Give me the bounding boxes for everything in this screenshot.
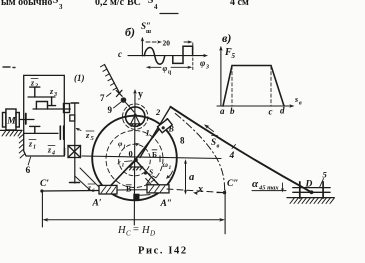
svg-text:1: 1 — [146, 128, 150, 138]
top pinion pivot — [129, 113, 141, 126]
C' extension vertical — [41, 191, 43, 227]
svg-text:1: 1 — [123, 144, 126, 150]
dashed x line to C'' — [167, 189, 225, 193]
svg-text:в): в) — [222, 31, 231, 45]
svg-text:В: В — [126, 185, 132, 194]
svg-text:(1): (1) — [74, 73, 85, 83]
svg-text:φ: φ — [200, 58, 205, 68]
point S dot — [144, 171, 147, 174]
svg-text:z: z — [85, 130, 90, 140]
wall hatching on housing left — [19, 134, 24, 158]
svg-text:3: 3 — [59, 3, 63, 11]
stray dash top-left margin — [3, 66, 15, 69]
spring-loaded stop 7 (hatched arrow) — [101, 65, 123, 97]
diagram v) horizontal axis — [217, 104, 295, 108]
link 4 upper segment through block — [140, 107, 171, 158]
dimension label Hc = HD — [117, 225, 155, 238]
label z6 — [87, 183, 95, 194]
link 3 to A'' — [136, 161, 166, 193]
point B bottom — [133, 194, 139, 200]
top pinion 9 circle — [126, 107, 145, 126]
x axis line through wheel — [82, 156, 221, 159]
svg-text:Рис. І42: Рис. І42 — [138, 246, 188, 257]
svg-text:20: 20 — [163, 39, 171, 48]
link 4 long arm — [171, 107, 312, 193]
motor shaft and coupling — [19, 114, 34, 125]
motor M — [3, 109, 20, 130]
svg-text:C′: C′ — [40, 179, 49, 189]
diagram b) sine curve — [144, 48, 165, 65]
diagram v) abscissa labels — [220, 106, 285, 117]
svg-text:A″: A″ — [160, 199, 173, 209]
intermediate shaft — [33, 108, 70, 110]
svg-text:ВС: ВС — [127, 0, 141, 8]
svg-text:1: 1 — [33, 145, 36, 151]
lower shaft — [24, 132, 58, 134]
small pinion on shaft — [70, 115, 75, 121]
diagram b) square wave — [173, 46, 193, 63]
C'' extension vertical — [224, 190, 226, 234]
phi1 label — [118, 139, 126, 150]
svg-text:2: 2 — [34, 84, 38, 90]
svg-text:б): б) — [125, 25, 135, 39]
vertical shaft z5 — [70, 103, 80, 183]
small arrow near S — [153, 176, 157, 178]
S arrow on link 4 — [206, 126, 214, 132]
bracket lines to wheel — [75, 168, 100, 190]
svg-text:3: 3 — [53, 92, 57, 98]
pivot D — [310, 190, 314, 194]
crank 1 — [107, 119, 167, 190]
diagram b) vertical axis — [141, 37, 145, 56]
diagram v) vertical axis — [219, 46, 223, 106]
svg-text:s: s — [294, 95, 298, 104]
svg-text:D: D — [149, 230, 155, 238]
gearbox housing 6 — [24, 75, 65, 156]
alpha arrow — [282, 183, 284, 190]
motor ground hatching — [0, 130, 22, 136]
dimension a — [184, 159, 187, 195]
gear z1 — [30, 126, 40, 133]
gear z4 bars — [60, 126, 63, 139]
dash-dot arc trajectory — [175, 114, 224, 193]
svg-text:7: 7 — [100, 93, 105, 103]
svg-text:ым обычно: ым обычно — [1, 0, 52, 8]
slider A'' — [147, 185, 169, 193]
svg-text:Б: Б — [152, 150, 157, 159]
label z5 with leader arrow — [77, 129, 82, 131]
diagram v) s5 axis label — [294, 95, 302, 107]
svg-text:2: 2 — [155, 107, 161, 117]
diagram b) label — [125, 25, 135, 39]
wheel 8 outer circle — [92, 116, 177, 201]
omega1 label — [163, 160, 172, 171]
svg-text:9: 9 — [108, 105, 113, 115]
label 6 with leader — [28, 157, 30, 165]
svg-text:c: c — [269, 107, 273, 117]
svg-text:B: B — [168, 125, 175, 134]
svg-text:5: 5 — [91, 135, 95, 142]
slider A' — [99, 185, 117, 194]
gear z2 — [30, 87, 40, 97]
svg-text:d: d — [280, 106, 285, 116]
svg-text:5: 5 — [232, 52, 236, 60]
diagram b) dimension 20 — [146, 40, 193, 53]
point C' — [40, 189, 43, 192]
guide line from C' — [42, 190, 99, 193]
svg-text:5: 5 — [323, 170, 328, 180]
svg-text:ц: ц — [168, 70, 172, 76]
svg-text:4: 4 — [51, 151, 55, 157]
ground under slider — [287, 198, 335, 204]
svg-text:6: 6 — [92, 188, 95, 194]
svg-text:1: 1 — [122, 163, 125, 169]
svg-text:4: 4 — [154, 3, 158, 11]
phi1 arrow on inner circle — [135, 143, 140, 147]
point C'' — [223, 191, 226, 194]
label eps1 with leader — [118, 158, 125, 169]
svg-text:A′: A′ — [92, 199, 102, 209]
diagram v) dashed ordinates — [232, 66, 271, 106]
dimension H line — [42, 218, 225, 222]
svg-text:S: S — [211, 137, 216, 147]
alpha 45 max angle label — [252, 178, 279, 192]
svg-text:в: в — [217, 143, 220, 150]
wheel inner dashed circle — [119, 144, 151, 176]
wheel pitch circle dashed — [106, 131, 163, 188]
omega arc arrow — [167, 171, 173, 178]
diagram v) F5 axis label — [224, 47, 236, 60]
diagram b) cycle-angle dimension — [146, 58, 193, 70]
svg-text:0,2 м/с: 0,2 м/с — [95, 0, 125, 8]
bevel gear pair — [64, 104, 70, 113]
svg-text:x: x — [197, 184, 203, 195]
svg-text:C: C — [126, 230, 131, 238]
clipped caption text at top edge — [1, 0, 249, 14]
roller contact line — [126, 102, 135, 112]
svg-text:C″: C″ — [227, 179, 239, 189]
svg-text:α: α — [252, 178, 259, 190]
center O pivot — [128, 158, 143, 170]
gear z3 — [48, 97, 56, 106]
slider block 2 — [158, 119, 173, 133]
alpha underline — [252, 190, 286, 192]
svg-text:a: a — [220, 106, 225, 116]
svg-text:S: S — [149, 168, 153, 177]
svg-text:у: у — [138, 89, 143, 100]
svg-text:8: 8 — [180, 136, 185, 146]
roller 9 (small filled circle) — [121, 97, 127, 103]
diagram v) trapezoid — [223, 66, 284, 107]
svg-text:4: 4 — [229, 151, 235, 161]
svg-text:4 см: 4 см — [230, 0, 249, 8]
svg-text:=: = — [133, 225, 139, 236]
crossing strokes below S — [146, 178, 151, 185]
svg-text:ш: ш — [146, 29, 151, 35]
svg-text:φ: φ — [163, 64, 168, 73]
svg-text:в: в — [299, 101, 302, 107]
diagram b) axis label S'' — [141, 21, 151, 35]
svg-text:a: a — [189, 172, 194, 183]
y axis line — [133, 89, 137, 225]
svg-text:b: b — [230, 106, 235, 116]
svg-text:3: 3 — [205, 65, 209, 71]
top pinion 9 dashed circle — [123, 104, 148, 129]
upper shaft — [28, 96, 55, 98]
double gear bracket — [36, 102, 47, 110]
svg-text:6: 6 — [26, 166, 31, 176]
svg-text:c: c — [118, 49, 122, 59]
svg-text:0: 0 — [129, 149, 133, 159]
diagram b) phi axis label — [200, 58, 209, 71]
worm gear on shaft — [65, 146, 81, 158]
svg-text:M: M — [6, 117, 16, 127]
slider 5 frame — [293, 182, 330, 198]
diagram b) horizontal axis — [128, 54, 208, 58]
svg-text:1: 1 — [169, 165, 172, 171]
